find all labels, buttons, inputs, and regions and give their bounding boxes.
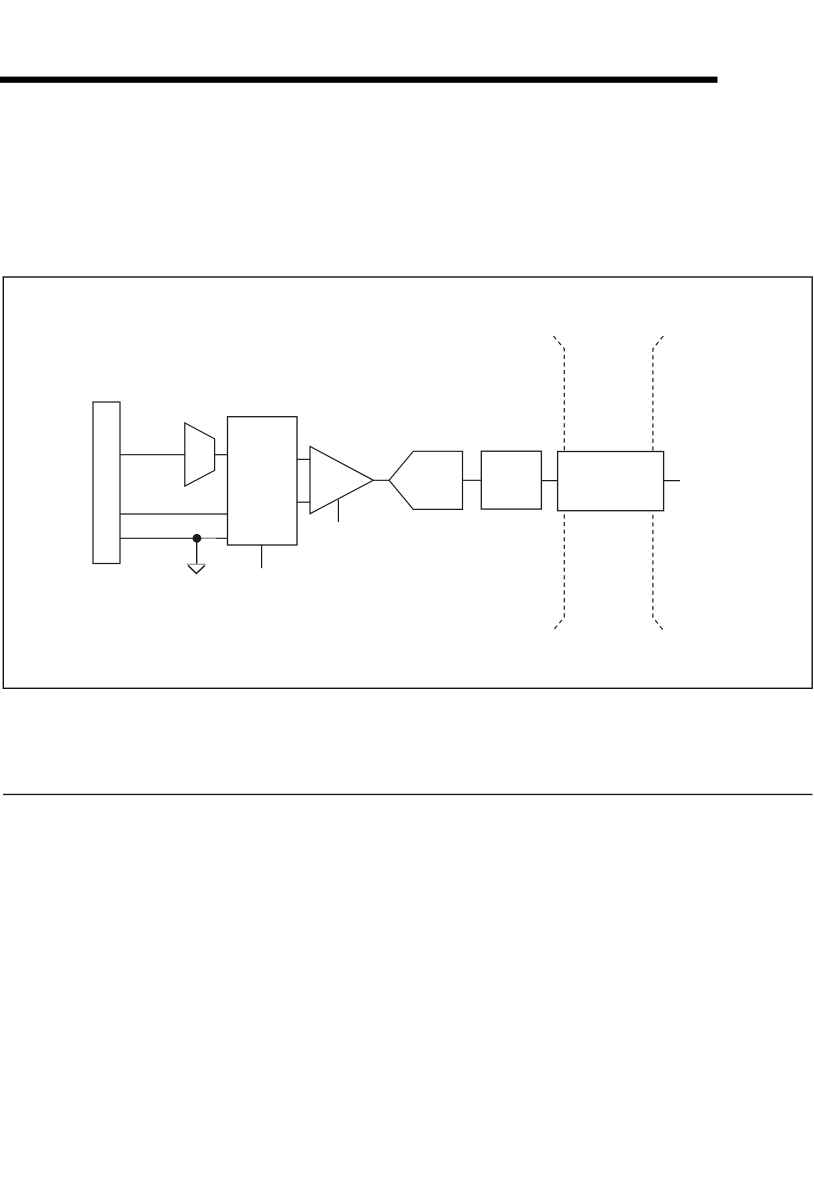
break mark right (dashed) (653, 336, 663, 630)
IC block bottom stub (261, 545, 263, 568)
wire: gray segment right of junction (202, 537, 217, 539)
connector J (tall rectangle) (93, 402, 120, 564)
wire: connector to buffer (input 1) (120, 454, 185, 456)
amplifier bottom stub (337, 500, 339, 522)
wire: pickup to small block (463, 479, 482, 481)
figure frame (3, 277, 812, 688)
pickup (pentagon) (389, 451, 462, 509)
footer rule (3, 794, 813, 795)
wire: IC block to amp (upper) (297, 458, 310, 460)
amplifier (triangle) (310, 446, 373, 513)
wire: amp to pickup (373, 479, 389, 481)
IC block (228, 417, 298, 545)
junction dot (193, 534, 202, 543)
break mark left (dashed) (553, 336, 564, 630)
wire: connector to IC block (ground line) (120, 537, 228, 539)
wire: connector to IC block (input 2) (120, 513, 228, 515)
wire: small block to output block (541, 480, 557, 482)
wire: IC block to amp (lower) (297, 501, 310, 503)
header rule (thick black bar) (0, 77, 718, 83)
wire: buffer to IC block (215, 454, 228, 456)
ground (187, 564, 206, 573)
buffer amp (trapezoid) (185, 423, 215, 486)
wire: junction to ground (196, 538, 198, 564)
output block (558, 452, 664, 511)
small block (481, 451, 541, 509)
wire: output stub (664, 480, 680, 482)
